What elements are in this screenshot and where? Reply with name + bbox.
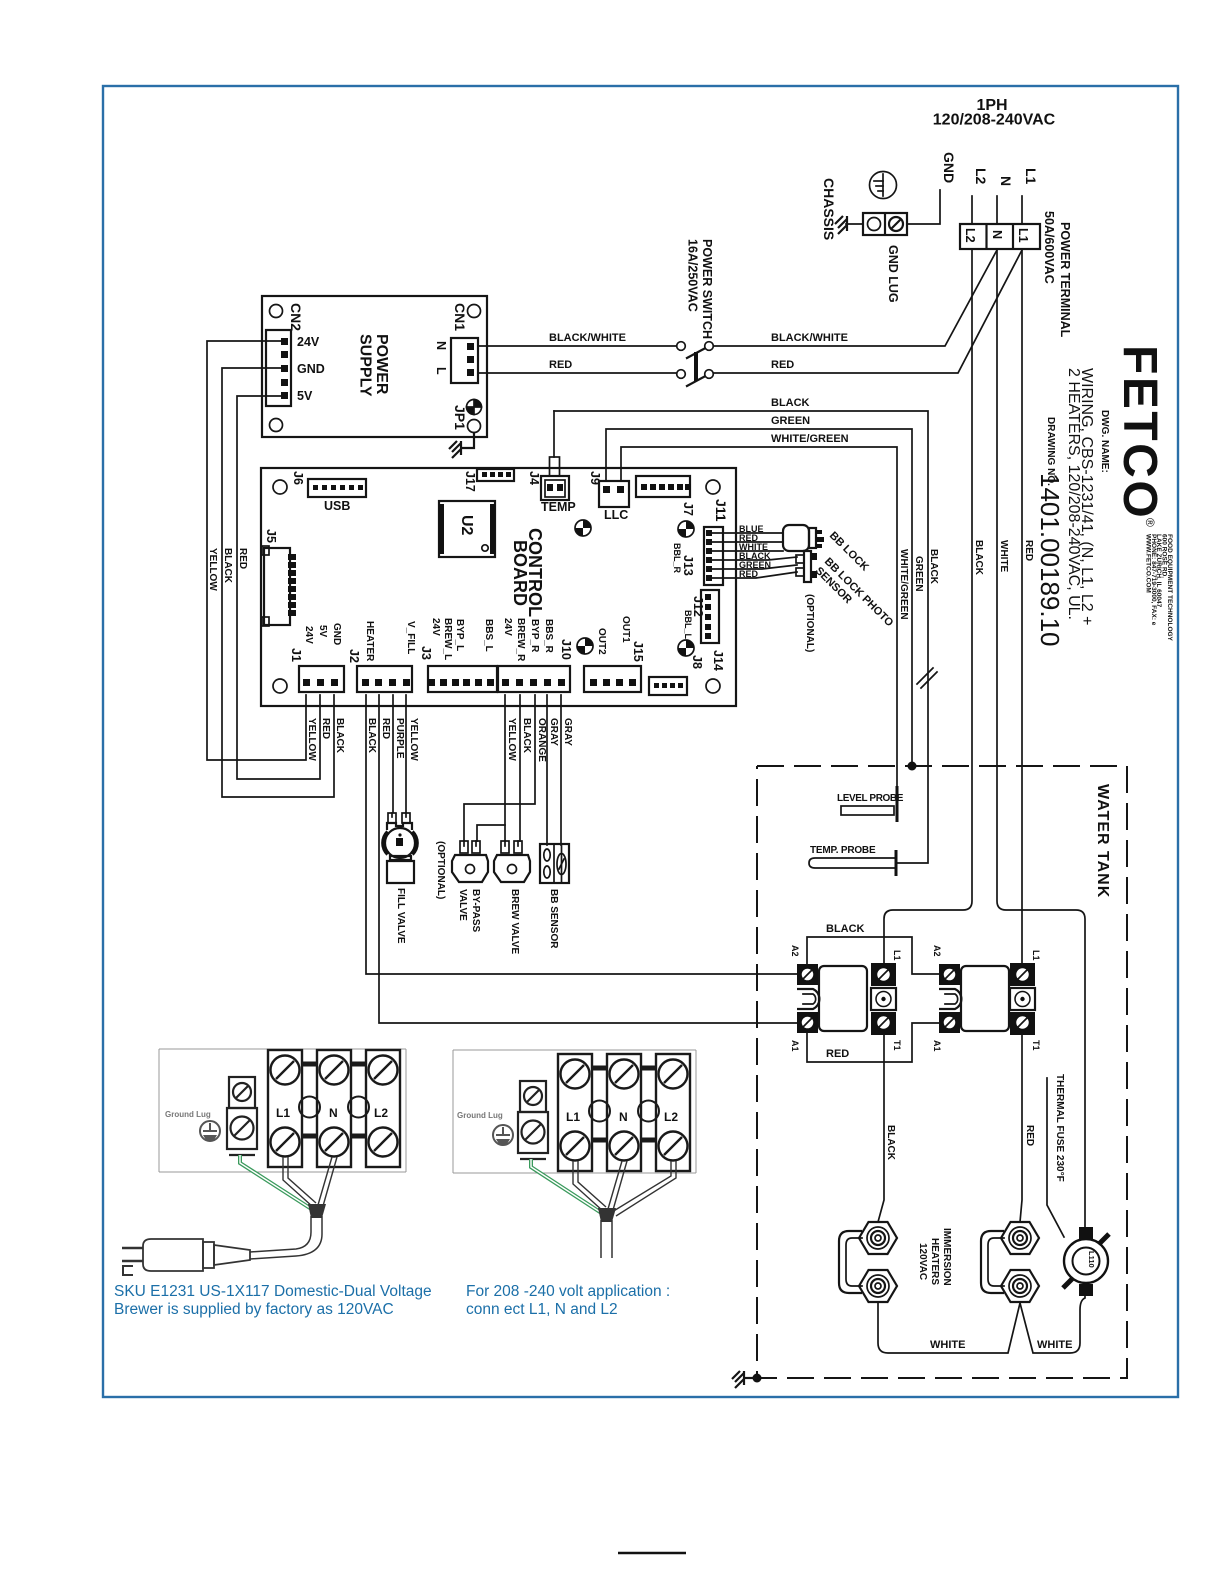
svg-text:WHITE: WHITE <box>998 540 1009 573</box>
svg-text:L2: L2 <box>973 168 989 185</box>
control board <box>261 468 736 706</box>
svg-text:24V: 24V <box>297 335 320 349</box>
contactor K1 <box>790 945 902 1052</box>
svg-text:BLACK: BLACK <box>366 718 377 754</box>
wire CN1 L to switch (red) <box>478 372 676 374</box>
svg-text:BLACK: BLACK <box>928 549 939 585</box>
stub wire N <box>996 196 998 224</box>
illustration 2 terminal block <box>558 1054 690 1171</box>
svg-text:BBS_L: BBS_L <box>483 619 494 652</box>
svg-text:POWERSUPPLY: POWERSUPPLY <box>357 334 391 397</box>
by-pass valve BPV <box>452 841 488 932</box>
wire switch to terminal N (black/white) <box>714 250 998 346</box>
wire JP1 to chassis ground <box>461 433 474 449</box>
connector J9 LLC <box>588 471 629 522</box>
svg-text:OUT1: OUT1 <box>620 616 631 643</box>
svg-text:L1: L1 <box>892 950 902 961</box>
svg-text:®: ® <box>1143 518 1157 527</box>
svg-text:J17: J17 <box>463 471 477 492</box>
connector J17 <box>463 469 514 492</box>
wire L2 black down to contactor K1 L1 <box>884 249 972 964</box>
svg-text:24V: 24V <box>430 618 441 636</box>
illustration 2 frame <box>453 1050 696 1173</box>
water tank dashed boundary <box>757 766 1127 1378</box>
svg-text:J7: J7 <box>681 502 695 516</box>
svg-text:CHASSIS: CHASSIS <box>821 178 837 240</box>
ground chassis (lug) <box>835 216 847 234</box>
svg-text:ORANGE: ORANGE <box>536 718 547 762</box>
connector J14 <box>649 650 725 695</box>
wire J2 pin1 black (to contactor A2) <box>366 695 801 974</box>
svg-text:50A/600VAC: 50A/600VAC <box>1042 211 1056 284</box>
svg-text:TEMP: TEMP <box>541 500 576 514</box>
svg-text:GRAY: GRAY <box>562 718 573 746</box>
screw board bottom-right J8 <box>678 640 704 669</box>
illustration 2 cord <box>601 1220 612 1258</box>
svg-text:BYP_L: BYP_L <box>454 619 465 651</box>
thermal fuse L110 <box>1063 1227 1109 1296</box>
svg-text:YELLOW: YELLOW <box>306 718 317 761</box>
illustration 2 green wire <box>531 1159 603 1214</box>
screw JP1 <box>452 400 482 433</box>
svg-text:J11: J11 <box>713 499 729 522</box>
svg-text:1401.00189.10: 1401.00189.10 <box>1035 473 1065 647</box>
svg-text:L: L <box>434 367 448 375</box>
illustration 2 ground terminal <box>518 1081 548 1159</box>
svg-text:5V: 5V <box>317 625 328 638</box>
svg-text:V_FILL: V_FILL <box>405 621 416 654</box>
wire K1 T1 to heater1 (black) <box>878 1035 884 1222</box>
wire J9 white/green to level probe <box>621 447 897 786</box>
illustration 1 green wire <box>240 1155 313 1210</box>
svg-text:L2: L2 <box>664 1110 678 1124</box>
stub wire L1 <box>1021 196 1023 224</box>
svg-text:Ground Lug: Ground Lug <box>165 1110 211 1119</box>
svg-text:For 208 -240 volt application: For 208 -240 volt application : <box>466 1283 670 1300</box>
illustration 1 L1 wire <box>283 1157 316 1207</box>
connector J2 <box>347 621 416 692</box>
svg-text:CONTROLBOARD: CONTROLBOARD <box>510 528 545 617</box>
bb lock photo sensor symbol <box>796 551 817 582</box>
svg-text:conn ect L1, N and L2: conn ect L1, N and L2 <box>466 1301 618 1318</box>
svg-text:J3: J3 <box>419 646 433 660</box>
svg-text:5V: 5V <box>297 389 313 403</box>
svg-text:LEVEL PROBE: LEVEL PROBE <box>837 793 904 804</box>
svg-text:U2: U2 <box>458 515 475 536</box>
svg-text:J8: J8 <box>690 655 704 669</box>
svg-text:BREW_L: BREW_L <box>442 618 453 660</box>
svg-text:T1: T1 <box>892 1040 902 1051</box>
chip U2 <box>439 501 495 557</box>
illustration 2 ground lug <box>493 1125 513 1145</box>
svg-text:POWER TERMINAL: POWER TERMINAL <box>1058 222 1072 338</box>
power terminal block TB <box>960 211 1072 338</box>
illustration 2 L1 wire <box>573 1161 606 1211</box>
svg-text:T1: T1 <box>1031 1040 1041 1051</box>
contactor K2 <box>932 945 1041 1052</box>
wire GND to lug <box>908 190 940 224</box>
illustration 1 cord bundle <box>308 1204 326 1218</box>
bb lock symbol <box>783 525 824 551</box>
connector CN1 <box>434 303 478 383</box>
svg-text:CN1: CN1 <box>452 303 468 331</box>
wire N white down to thermal fuse <box>997 249 1085 1229</box>
wire lug to chassis <box>846 223 863 225</box>
svg-text:RED: RED <box>320 718 331 739</box>
svg-text:A2: A2 <box>932 945 942 957</box>
svg-text:L2: L2 <box>963 228 977 243</box>
svg-text:J15: J15 <box>631 641 645 662</box>
wire by-pass to brew link <box>477 825 505 841</box>
wire CN2 24V to J1 (yellow) <box>207 341 306 760</box>
svg-text:GREEN: GREEN <box>771 415 810 427</box>
svg-text:RED: RED <box>1024 1125 1035 1146</box>
brew valve BV <box>494 841 530 955</box>
svg-text:L110: L110 <box>1087 1251 1096 1268</box>
connector J15 <box>584 616 645 692</box>
wire coil red K1-K2 <box>807 1023 939 1062</box>
svg-text:(OPTIONAL): (OPTIONAL) <box>435 841 446 899</box>
svg-text:BBS_R: BBS_R <box>543 619 554 654</box>
svg-text:BLACK/WHITE: BLACK/WHITE <box>771 332 848 344</box>
svg-text:TEMP. PROBE: TEMP. PROBE <box>810 845 876 856</box>
svg-text:BLACK: BLACK <box>222 548 233 584</box>
connector J1 <box>289 623 344 692</box>
wire J10 gray 1 to bb sensor <box>546 695 548 845</box>
wire J13 red2 to photo sensor <box>712 572 797 578</box>
svg-text:L1: L1 <box>1016 228 1030 243</box>
svg-text:THERMAL FUSE 230°F: THERMAL FUSE 230°F <box>1054 1074 1065 1182</box>
wire J13 blue <box>712 532 783 534</box>
svg-text:WHITE/GREEN: WHITE/GREEN <box>771 433 849 445</box>
level probe <box>837 786 904 822</box>
connector J6 USB <box>291 471 366 513</box>
connector J10 <box>498 618 573 692</box>
svg-text:RED: RED <box>826 1048 849 1060</box>
wire coil black K1-K2 <box>807 937 939 974</box>
svg-text:OUT2: OUT2 <box>596 628 607 655</box>
wire J13 green to photo sensor <box>712 565 797 569</box>
svg-text:120/208-240VAC: 120/208-240VAC <box>933 112 1056 129</box>
svg-text:A1: A1 <box>790 1040 800 1052</box>
svg-text:JP1: JP1 <box>452 405 468 430</box>
border frame <box>103 86 1178 1397</box>
illustration 1 ground terminal <box>227 1077 257 1155</box>
svg-text:RED: RED <box>739 569 759 579</box>
svg-text:FILL VALVE: FILL VALVE <box>395 888 406 944</box>
wire J9 green to tank chassis <box>606 429 912 763</box>
heater H2 <box>981 1222 1039 1302</box>
svg-text:L1: L1 <box>566 1110 580 1124</box>
svg-text:SKU E1231 US-1X117 Domestic: SKU E1231 US-1X117 Domestic-Dual Voltage <box>114 1283 432 1300</box>
heater H1 <box>839 1222 897 1302</box>
svg-text:L1: L1 <box>1023 168 1039 185</box>
svg-text:WHITE: WHITE <box>930 1339 965 1351</box>
illustration 1 ground lug <box>200 1121 220 1141</box>
temp probe <box>809 845 896 876</box>
illustration 2 L2 wire <box>612 1161 676 1216</box>
wire J4 to temp cable <box>550 457 560 476</box>
wire switch to terminal L1 (red) <box>714 250 1023 373</box>
svg-text:LLC: LLC <box>604 508 628 522</box>
svg-text:WATER TANK: WATER TANK <box>1094 784 1111 898</box>
wire J2 pin4 yellow to fill valve <box>405 695 407 812</box>
bb sensor <box>540 844 569 949</box>
svg-text:RED: RED <box>1023 540 1034 561</box>
svg-text:J1: J1 <box>289 648 303 662</box>
svg-text:L1: L1 <box>1031 950 1041 961</box>
svg-text:HEATER: HEATER <box>364 621 375 662</box>
wire J13 white <box>712 550 783 552</box>
stub wire L2 <box>971 196 973 224</box>
wire J13 red <box>712 541 783 543</box>
svg-text:BREW_R: BREW_R <box>515 618 526 662</box>
svg-text:YELLOW: YELLOW <box>506 718 517 761</box>
wire J2 pin3 purple to fill valve <box>392 695 394 812</box>
svg-text:N: N <box>619 1110 628 1124</box>
svg-text:N: N <box>998 176 1014 186</box>
svg-text:A2: A2 <box>790 945 800 957</box>
svg-text:GRAY: GRAY <box>548 718 559 746</box>
illustration 1 N wire <box>318 1157 337 1206</box>
svg-text:Brewer is supplied by factory: Brewer is supplied by factory as 120VAC <box>114 1301 394 1318</box>
illustration 2 cord bundle <box>598 1208 616 1222</box>
svg-text:FETCO: FETCO <box>1113 345 1166 520</box>
svg-text:BLACK: BLACK <box>826 923 865 935</box>
connector J12 BBL_L <box>683 590 719 643</box>
wire J4 black to temp probe <box>554 411 928 863</box>
svg-text:L1: L1 <box>276 1106 290 1120</box>
illustration 1 plug <box>122 1239 250 1275</box>
svg-text:RED: RED <box>237 548 248 569</box>
footer mark <box>618 1552 686 1555</box>
screw board top-left <box>575 520 591 536</box>
svg-text:N: N <box>329 1106 338 1120</box>
svg-text:A1: A1 <box>932 1040 942 1052</box>
svg-text:L2: L2 <box>374 1106 388 1120</box>
svg-text:GND: GND <box>297 362 325 376</box>
svg-text:J10: J10 <box>559 639 573 660</box>
svg-text:WHITE: WHITE <box>1037 1339 1072 1351</box>
svg-text:J4: J4 <box>527 471 541 485</box>
svg-text:YELLOW: YELLOW <box>207 548 218 591</box>
svg-text:J6: J6 <box>291 471 305 485</box>
illustration 1 power cord <box>250 1216 322 1259</box>
svg-text:BLACK: BLACK <box>334 718 345 754</box>
connector CN2 <box>266 330 325 406</box>
svg-text:BREW VALVE: BREW VALVE <box>509 889 520 955</box>
connector J5 <box>262 529 296 626</box>
svg-text:USB: USB <box>324 499 350 513</box>
wire J10 gray 2 to bb sensor <box>560 695 562 845</box>
wire heater1 white <box>878 1303 1020 1353</box>
fill valve FV <box>383 813 416 944</box>
svg-text:YELLOW: YELLOW <box>408 718 419 761</box>
wire K2 T1 to heater2 (red) <box>1020 1035 1022 1222</box>
connector J7 <box>636 476 695 516</box>
svg-text:WIRING, CBS-1231/41, (N, L1, L: WIRING, CBS-1231/41, (N, L1, L2 +2 HEATE… <box>1065 368 1095 625</box>
svg-text:BLACK: BLACK <box>771 397 810 409</box>
chassis earth circle <box>870 172 897 199</box>
svg-text:GREEN: GREEN <box>913 556 924 592</box>
ground chassis (power supply) <box>449 441 461 458</box>
svg-text:RED: RED <box>380 718 391 739</box>
wire J10 black to brew valve <box>519 695 521 841</box>
svg-text:24V: 24V <box>502 618 513 636</box>
wire J13 black to photo sensor <box>712 557 797 560</box>
wire CN1 N to switch (black/white) <box>478 345 676 347</box>
illustration 1 frame <box>159 1049 406 1172</box>
svg-text:BBL_R: BBL_R <box>672 543 682 574</box>
svg-text:J13: J13 <box>681 555 695 576</box>
svg-text:PURPLE: PURPLE <box>394 718 405 759</box>
svg-text:Ground Lug: Ground Lug <box>457 1111 503 1120</box>
wire J10 orange to by-pass valve <box>464 695 535 841</box>
gnd lug <box>863 213 907 303</box>
screw board top-right <box>678 521 694 537</box>
svg-text:BLACK: BLACK <box>973 540 984 576</box>
svg-text:GND: GND <box>941 152 957 183</box>
svg-text:WHITE/GREEN: WHITE/GREEN <box>898 549 909 620</box>
power supply U-PS <box>262 296 487 437</box>
svg-text:RED: RED <box>771 359 794 371</box>
svg-text:BB SENSOR: BB SENSOR <box>548 889 559 949</box>
wire CN2 GND to J1 (black) <box>222 368 334 797</box>
wire break mark <box>917 668 937 688</box>
wire CN2 5V to J1 (red) <box>237 396 320 779</box>
svg-text:J14: J14 <box>711 650 725 671</box>
ground tank <box>732 1371 762 1388</box>
svg-text:BBL_L: BBL_L <box>683 610 693 640</box>
svg-text:24V: 24V <box>303 626 314 644</box>
wire J2 pin2 red (to contactor A1) <box>379 695 801 1023</box>
illustration 1 terminal block <box>268 1050 400 1167</box>
power switch S1 <box>677 239 714 387</box>
svg-text:N: N <box>434 341 448 350</box>
screw board bottom-left <box>577 638 593 654</box>
node green to tank <box>908 762 917 771</box>
svg-text:CN2: CN2 <box>288 303 304 331</box>
svg-text:GND LUG: GND LUG <box>886 245 900 303</box>
svg-text:GND: GND <box>331 623 342 645</box>
svg-text:DWG. NAME:: DWG. NAME: <box>1099 410 1110 473</box>
connector J13 BBL_R <box>672 527 723 585</box>
connector J3 <box>419 618 497 692</box>
wire heater2 white to fuse <box>1020 1296 1085 1353</box>
svg-text:RED: RED <box>549 359 572 371</box>
svg-text:BLACK: BLACK <box>885 1125 896 1161</box>
wire L1 red down to contactor K2 L1 <box>1021 249 1023 964</box>
illustration 2 N wire <box>608 1161 627 1210</box>
svg-text:BLACK: BLACK <box>521 718 532 754</box>
svg-text:N: N <box>990 230 1004 239</box>
wire J10 yellow to brew valve <box>504 695 506 841</box>
svg-text:J5: J5 <box>264 529 278 543</box>
svg-text:(OPTIONAL): (OPTIONAL) <box>804 594 815 652</box>
svg-text:J2: J2 <box>347 649 361 663</box>
leader thermal fuse <box>1047 1078 1064 1237</box>
connector J4 TEMP <box>527 471 576 514</box>
svg-text:BLACK/WHITE: BLACK/WHITE <box>549 332 626 344</box>
svg-text:BYP_R: BYP_R <box>529 619 540 653</box>
